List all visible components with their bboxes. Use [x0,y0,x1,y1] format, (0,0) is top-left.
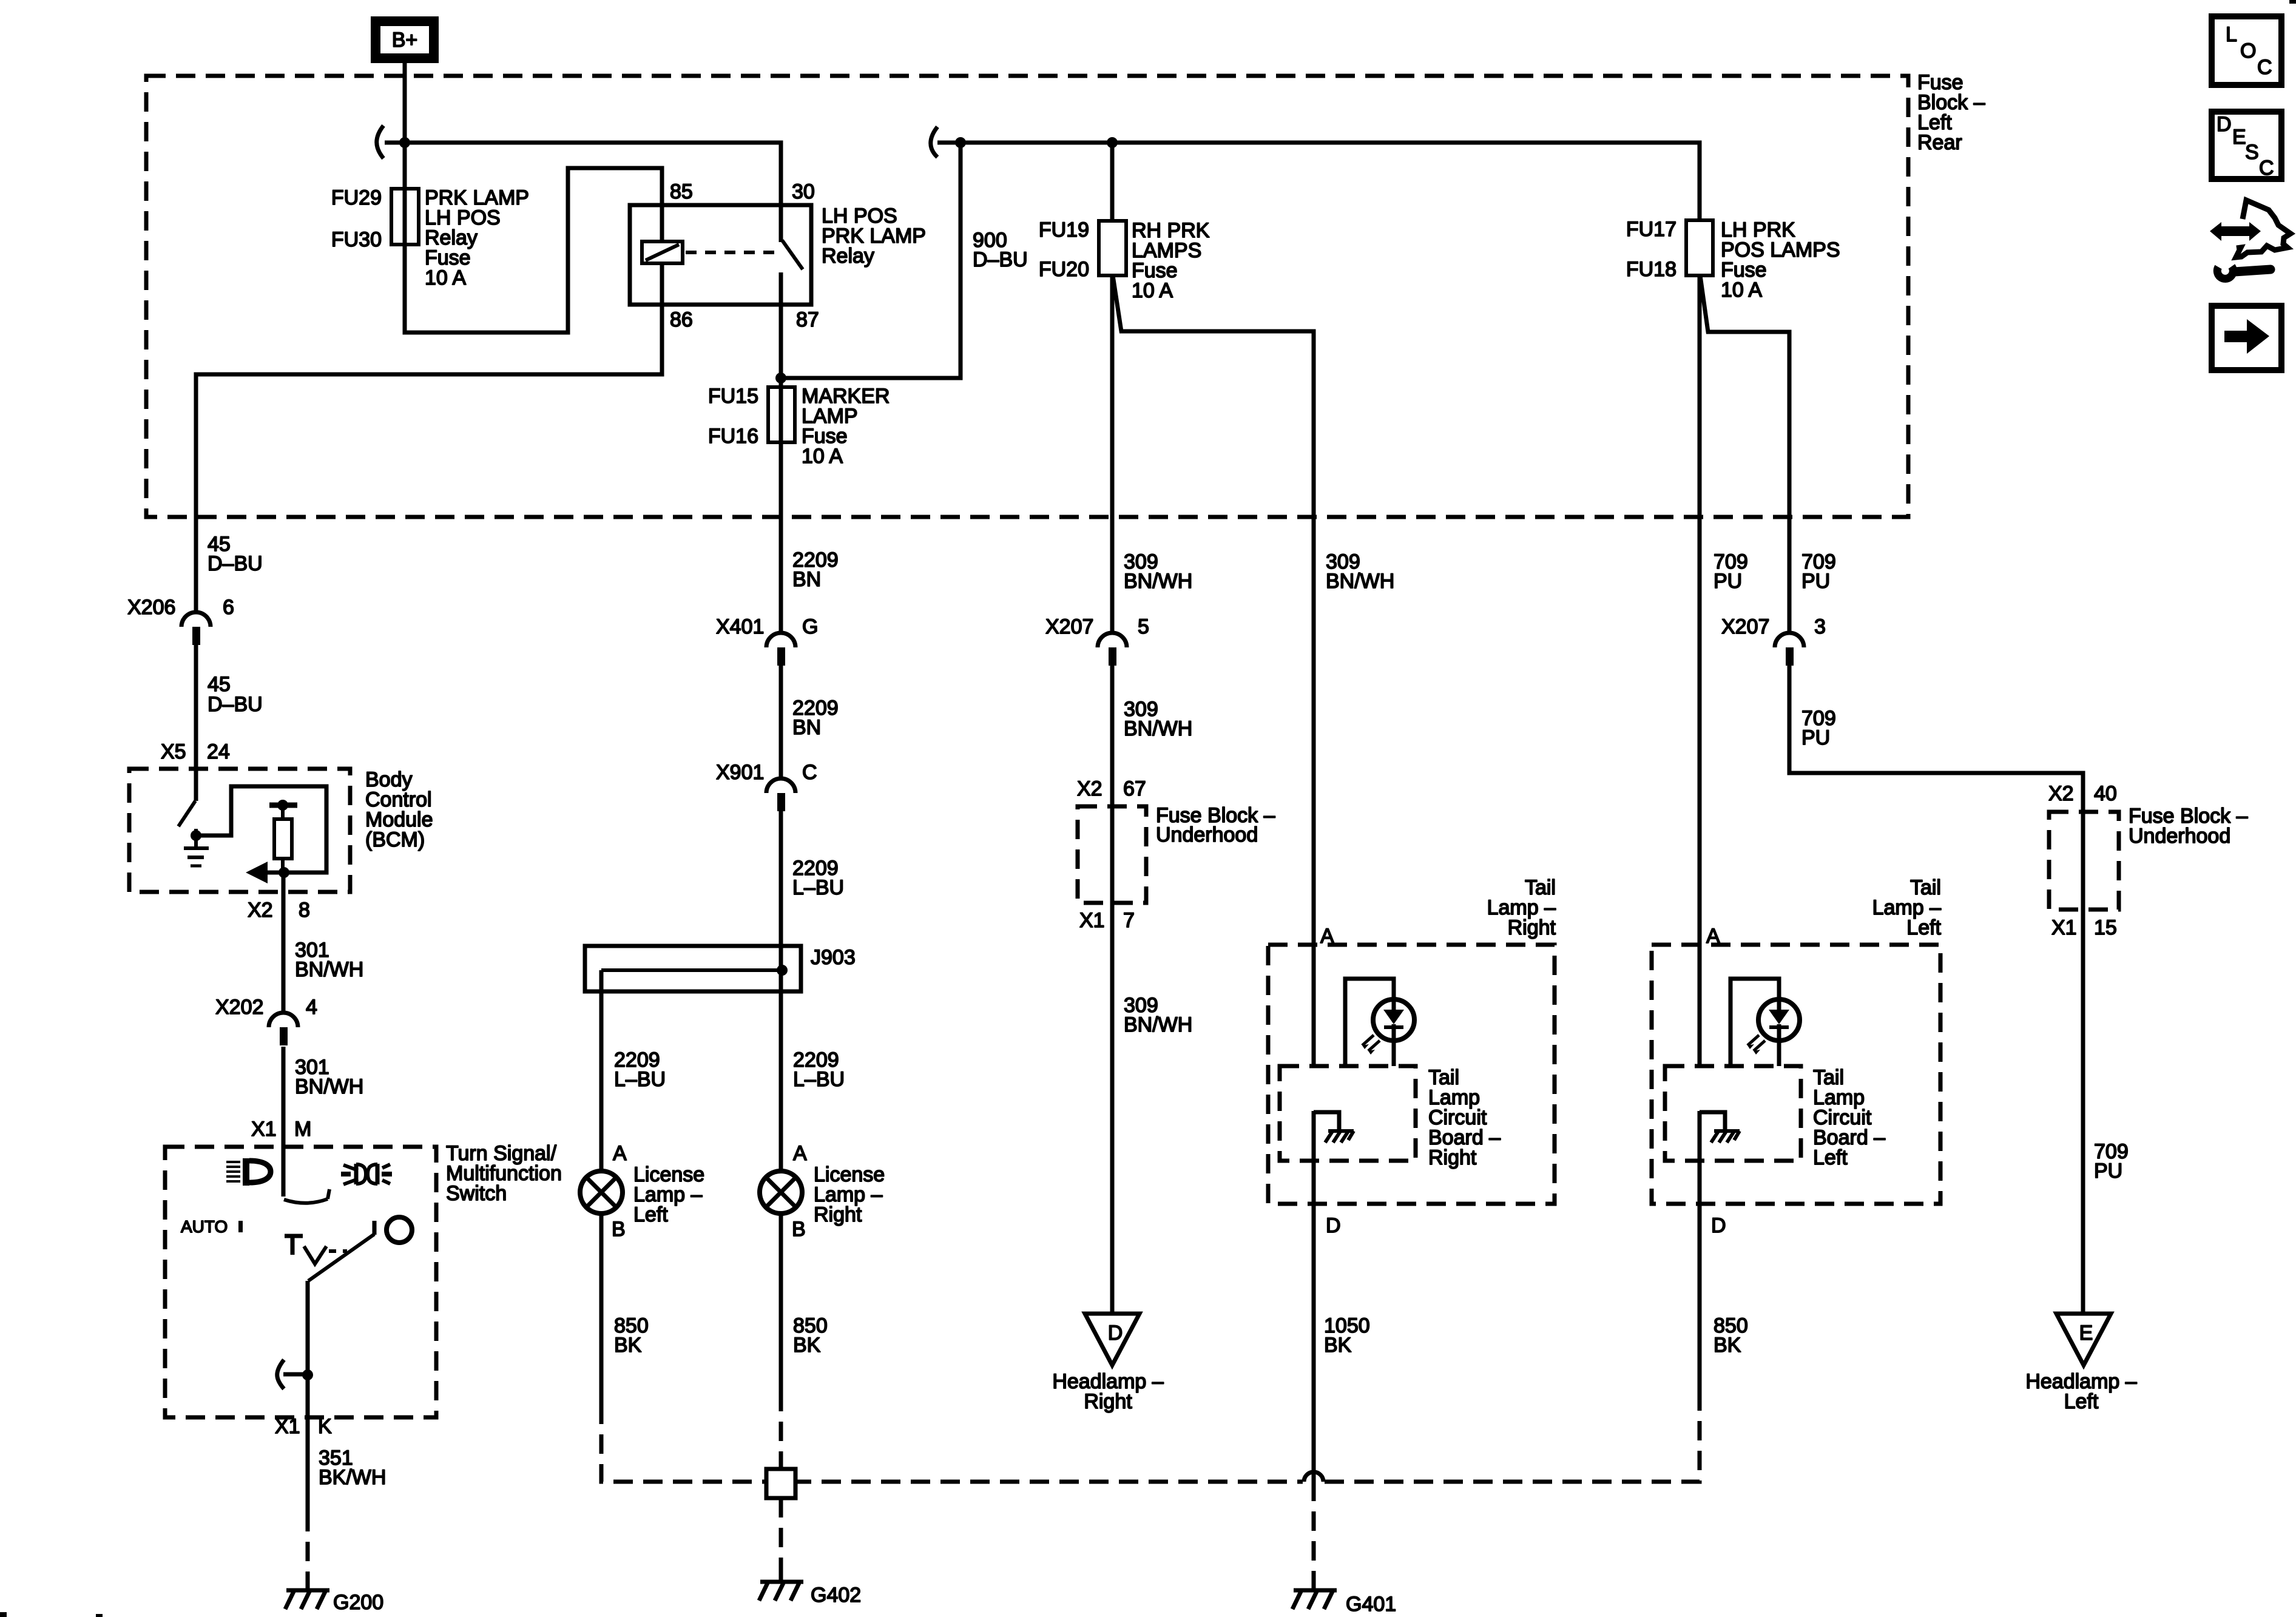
svg-text:85: 85 [670,180,693,203]
svg-text:C: C [2259,157,2274,180]
svg-text:(BCM): (BCM) [365,828,425,851]
svg-text:FU29: FU29 [331,186,382,209]
svg-text:BK: BK [1324,1334,1352,1357]
svg-text:E: E [2232,126,2246,149]
svg-text:Relay: Relay [822,245,874,268]
svg-text:10 A: 10 A [1132,279,1173,302]
svg-text:L–BU: L–BU [793,1068,845,1091]
svg-text:BK: BK [793,1334,821,1357]
svg-text:15: 15 [2094,916,2117,939]
svg-text:BK: BK [1714,1334,1741,1357]
svg-text:10 A: 10 A [1721,279,1762,302]
svg-text:E: E [2079,1322,2093,1345]
svg-text:D: D [1711,1214,1726,1237]
svg-text:BN/WH: BN/WH [1124,570,1192,593]
svg-text:A: A [1320,925,1334,948]
svg-text:C: C [802,761,817,784]
svg-text:A: A [613,1142,627,1165]
svg-text:FU16: FU16 [708,425,758,448]
svg-text:BN: BN [792,716,821,739]
svg-text:PU: PU [1801,570,1830,593]
svg-text:6: 6 [223,596,234,619]
svg-text:X901: X901 [716,761,764,784]
svg-text:FU17: FU17 [1626,218,1676,241]
svg-text:FU20: FU20 [1039,258,1089,281]
svg-text:Right: Right [814,1203,862,1226]
svg-text:8: 8 [299,899,310,922]
svg-text:G: G [802,615,818,638]
svg-text:D–BU: D–BU [973,248,1028,271]
svg-text:PU: PU [2094,1160,2122,1183]
svg-text:K: K [318,1415,332,1438]
svg-text:Right: Right [1428,1146,1477,1169]
svg-text:FU15: FU15 [708,385,758,408]
svg-text:D–BU: D–BU [208,693,263,716]
svg-text:X5: X5 [161,740,186,763]
svg-text:X2: X2 [248,899,273,922]
svg-text:S: S [2245,141,2259,164]
svg-text:X202: X202 [215,996,263,1019]
svg-text:BN/WH: BN/WH [295,958,363,981]
svg-text:30: 30 [792,180,815,203]
svg-text:B: B [792,1218,806,1241]
svg-text:X1: X1 [251,1118,277,1141]
svg-text:A: A [1706,925,1720,948]
svg-text:D: D [2217,113,2232,136]
svg-text:X206: X206 [127,596,175,619]
svg-text:87: 87 [796,308,819,331]
svg-text:BK/WH: BK/WH [319,1466,386,1489]
svg-text:Right: Right [1508,916,1556,939]
svg-text:BN/WH: BN/WH [1124,1013,1192,1036]
svg-text:BN: BN [792,568,821,591]
svg-text:10 A: 10 A [802,445,843,468]
svg-text:67: 67 [1123,777,1146,800]
svg-text:G401: G401 [1346,1593,1396,1616]
svg-text:A: A [793,1142,807,1165]
svg-text:PU: PU [1714,570,1742,593]
svg-text:Left: Left [1906,916,1941,939]
svg-text:L: L [2226,23,2237,46]
svg-text:X2: X2 [2048,782,2074,805]
svg-text:3: 3 [1814,615,1826,638]
svg-text:D: D [1326,1214,1341,1237]
svg-text:M: M [294,1118,311,1141]
svg-text:X401: X401 [716,615,764,638]
svg-text:X1: X1 [2051,916,2077,939]
svg-text:10 A: 10 A [425,266,466,289]
svg-text:FU18: FU18 [1626,258,1676,281]
svg-text:D: D [1108,1322,1123,1345]
svg-text:X1: X1 [275,1415,300,1438]
svg-text:BN/WH: BN/WH [295,1075,363,1098]
svg-text:G200: G200 [333,1591,383,1614]
svg-text:X207: X207 [1045,615,1093,638]
svg-text:J903: J903 [811,946,856,969]
svg-text:Switch: Switch [446,1182,507,1205]
svg-text:B: B [612,1218,626,1241]
svg-text:7: 7 [1123,909,1135,932]
svg-text:Left: Left [1813,1146,1848,1169]
svg-text:BK: BK [614,1334,642,1357]
svg-text:O: O [2240,39,2256,62]
svg-text:L–BU: L–BU [614,1068,666,1091]
svg-text:BN/WH: BN/WH [1124,717,1192,740]
svg-text:X207: X207 [1721,615,1769,638]
svg-text:Left: Left [2064,1390,2099,1413]
svg-text:Underhood: Underhood [1156,823,1258,846]
svg-text:BN/WH: BN/WH [1326,570,1394,593]
svg-text:B+: B+ [392,29,418,52]
svg-text:PU: PU [1801,726,1830,749]
svg-text:G402: G402 [811,1584,861,1607]
svg-text:FU19: FU19 [1039,218,1089,241]
svg-text:4: 4 [306,996,317,1019]
svg-text:24: 24 [207,740,230,763]
svg-text:5: 5 [1138,615,1149,638]
svg-text:FU30: FU30 [331,228,382,251]
svg-text:86: 86 [670,308,693,331]
svg-text:L–BU: L–BU [792,876,844,899]
svg-text:Underhood: Underhood [2129,825,2230,848]
svg-text:D–BU: D–BU [208,552,263,575]
svg-text:Rear: Rear [1917,131,1962,154]
svg-text:X2: X2 [1077,777,1102,800]
svg-text:X1: X1 [1079,909,1105,932]
svg-text:40: 40 [2094,782,2117,805]
svg-text:AUTO: AUTO [181,1217,228,1236]
svg-text:Right: Right [1084,1390,1132,1413]
svg-text:Left: Left [633,1203,668,1226]
svg-text:C: C [2257,56,2272,79]
